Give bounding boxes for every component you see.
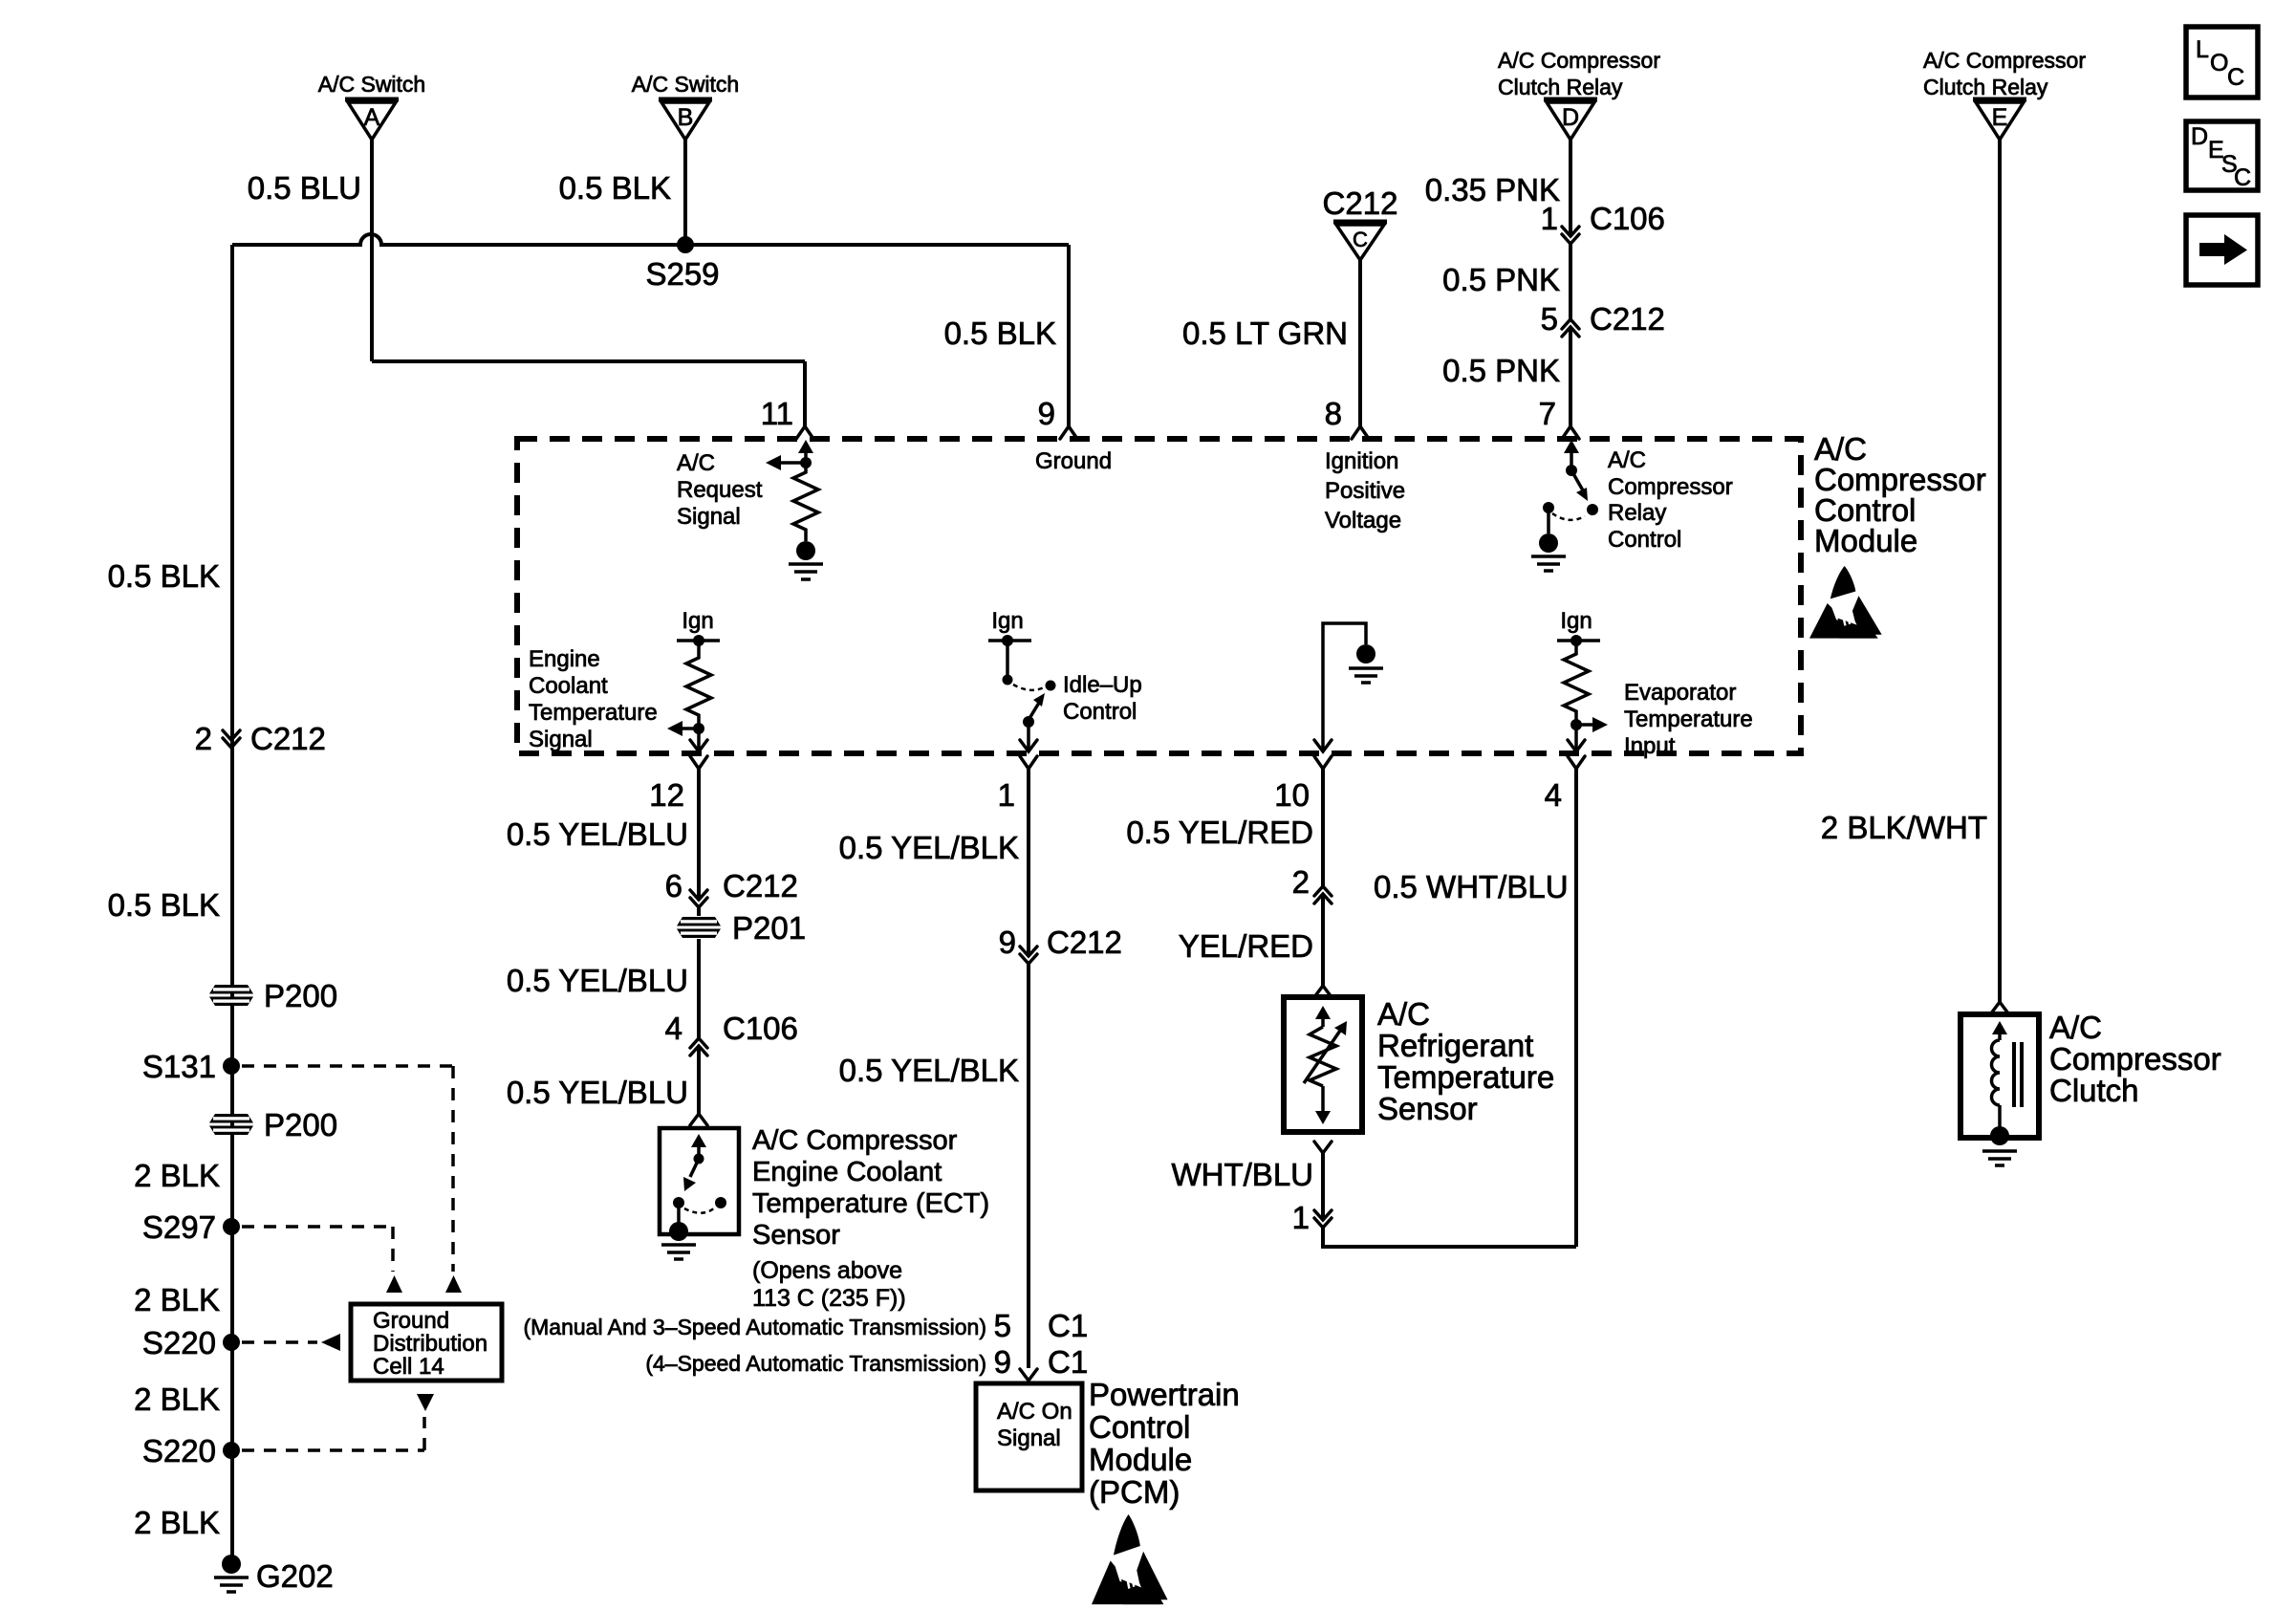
internal ground dot (pin 11) [796,541,815,560]
svg-text:C106: C106 [723,1011,798,1046]
right arrow (evaporator temp input) [1576,723,1594,727]
ground G202 symbol [214,1577,249,1592]
resistor [1564,641,1589,721]
second horizontal wire from switch A to pin 11 [372,359,805,363]
ESD sensitive symbol (module) [1809,566,1882,639]
svg-text:Temperature (ECT): Temperature (ECT) [752,1188,989,1219]
svg-text:C106: C106 [1590,201,1665,236]
thermistor arrow down [1321,1086,1325,1113]
svg-text:2 BLK/WHT: 2 BLK/WHT [1821,810,1987,845]
clutch connector chevron [1991,1002,2008,1013]
wire down to module pin 11 [803,361,807,426]
ECT stub to ground [677,1203,681,1224]
svg-text:1: 1 [1292,1200,1310,1235]
svg-text:Ign: Ign [1560,608,1592,634]
PCM connector chevron [1020,1369,1037,1381]
wire down to PCM (0.5 YEL/BLK) [1027,964,1030,1368]
thermistor zigzag [1310,1027,1336,1086]
wire with down arrowhead to pin 4 [1574,725,1578,751]
svg-text:A/C: A/C [1608,447,1646,473]
connector triangle D [1544,99,1597,140]
ECT ground symbol [661,1245,696,1259]
powertrain control module box [976,1383,1082,1490]
svg-text:Control: Control [1608,527,1681,553]
svg-text:Ign: Ign [991,608,1023,634]
stub to ground (pin 7 switch) [1547,508,1550,533]
wire with down arrowhead to pin 12 [697,729,701,751]
svg-text:A/C: A/C [2049,1010,2102,1045]
in-line connector 2 [1292,864,1332,903]
module name label [1814,431,1986,558]
wire (WHT/BLU) [1321,1153,1325,1220]
svg-text:Ground: Ground [1035,448,1112,474]
svg-text:Temperature: Temperature [529,700,658,726]
refrigerant sensor connector chevron [1314,986,1332,997]
ECT lower contact dot [673,1197,684,1208]
internal ground symbol (pin 7) [1531,556,1566,571]
svg-text:Module: Module [1814,523,1917,558]
wire with down arrowhead to pin 1 [1027,722,1030,751]
wire to clutch ground [1998,1105,2002,1128]
svg-text:10: 10 [1274,777,1310,813]
sensor bottom connector chevron [1314,1142,1332,1153]
A/C refrigerant temperature sensor box [1284,997,1362,1132]
stub down from Ign [1006,641,1009,675]
Ign T-bar [677,639,720,642]
splice node S131 [223,1057,240,1075]
LOC legend box [2186,27,2258,98]
connector triangle C [1333,222,1387,260]
svg-text:A/C: A/C [1377,996,1430,1032]
svg-text:12: 12 [649,777,684,813]
in-line connector 1 C106 [1541,201,1665,244]
switch arm with arrowhead [1029,703,1039,720]
thermistor diagonal arrow [1304,1031,1340,1083]
refrigerant sensor label [1377,996,1554,1126]
svg-text:Sensor: Sensor [1377,1091,1478,1126]
wire down to module pin 9 (0.5 BLK) [1067,245,1071,426]
svg-text:7: 7 [1539,396,1556,431]
svg-text:1: 1 [1541,201,1558,236]
svg-text:Relay: Relay [1608,500,1666,526]
svg-text:Control: Control [1063,699,1137,725]
clutch coil arrow up [1998,1033,2002,1040]
svg-text:9: 9 [1038,396,1055,431]
left arrow (A/C request signal) [779,461,806,465]
internal ground symbol (pin 11) [789,564,823,579]
clutch label [2049,1010,2221,1108]
svg-text:0.5 YEL/BLU: 0.5 YEL/BLU [507,816,688,852]
svg-text:Signal: Signal [529,727,593,752]
wire from triangle C to module pin 8 (0.5 LT GRN) [1358,260,1362,426]
right contact dot [1046,681,1056,691]
ESD sensitive symbol (PCM) [1092,1514,1168,1604]
svg-text:Input: Input [1624,733,1676,759]
svg-text:S259: S259 [645,256,719,292]
wire from A/C switch A down (0.5 BLU) [370,140,374,361]
svg-text:2 BLK: 2 BLK [134,1282,220,1317]
switch pivot dot [1566,465,1577,476]
wire (YEL/RED) [1321,894,1325,986]
svg-text:WHT/BLU: WHT/BLU [1172,1157,1314,1192]
internal ground symbol (pin 10) [1349,668,1383,683]
svg-text:Temperature: Temperature [1624,707,1753,732]
svg-text:Ground: Ground [373,1308,449,1334]
A/C Switch connector triangle B [659,99,712,140]
svg-text:2 BLK: 2 BLK [134,1382,220,1417]
DESC legend box [2186,121,2258,191]
svg-text:Coolant: Coolant [529,673,608,699]
svg-text:C212: C212 [1323,185,1398,221]
dashed reference wire from S131 [242,1066,453,1272]
internal ground dot (pin 10) [1356,644,1375,664]
wire segment [697,907,701,916]
svg-text:S297: S297 [142,1209,216,1245]
svg-text:Ignition: Ignition [1325,448,1398,474]
svg-text:Compressor: Compressor [1608,474,1733,500]
pin 12 connector chevron [690,756,707,769]
wire corner joining pin 4 wire [1323,1228,1576,1247]
svg-text:2 BLK: 2 BLK [134,1158,220,1193]
svg-text:Sensor: Sensor [752,1220,840,1251]
svg-text:P200: P200 [264,978,337,1013]
svg-text:0.5 BLK: 0.5 BLK [108,887,220,923]
svg-text:A/C Switch: A/C Switch [632,72,739,97]
svg-text:0.5 BLK: 0.5 BLK [108,558,220,594]
svg-text:Refrigerant: Refrigerant [1377,1028,1533,1063]
pin 7 connector chevron [1562,426,1579,439]
svg-text:S131: S131 [142,1049,216,1084]
in-line connector 9 C212 [999,925,1122,964]
arrowhead up (from S131) [445,1275,462,1293]
A/C compressor control module dashed outline [517,439,1801,753]
svg-text:0.5 WHT/BLU: 0.5 WHT/BLU [1374,869,1569,904]
svg-text:(Opens above: (Opens above [752,1257,902,1284]
svg-text:Clutch: Clutch [2049,1073,2139,1108]
svg-text:C: C [1353,228,1368,251]
svg-text:A/C Switch: A/C Switch [318,72,425,97]
Ign T-bar [988,639,1031,642]
in-line connector 1 [1292,1200,1332,1235]
wire from D down (0.35 PNK) [1569,140,1572,236]
svg-text:C212: C212 [1047,925,1122,960]
ECT sensor internal arrow up [697,1145,701,1157]
ECT switch pivot dot [694,1154,704,1164]
svg-text:0.5 YEL/RED: 0.5 YEL/RED [1126,815,1313,850]
internal ground dot (pin 7) [1539,533,1558,553]
svg-text:1: 1 [998,777,1015,813]
arrowhead up (from S297) [386,1275,402,1293]
pin 1 connector chevron [1020,756,1037,769]
svg-text:Positive: Positive [1325,478,1405,504]
PCM label [1089,1377,1240,1510]
svg-text:A/C Compressor: A/C Compressor [752,1125,958,1156]
svg-text:C212: C212 [1590,301,1665,337]
svg-text:G202: G202 [256,1558,334,1594]
svg-text:P200: P200 [264,1107,337,1142]
svg-text:Evaporator: Evaporator [1624,680,1736,706]
svg-text:P201: P201 [732,910,806,946]
resistor (pull-up at pin 11) [793,463,818,541]
ECT ground dot [669,1222,688,1241]
in-line connector 4 C106 [665,1011,798,1055]
svg-text:A/C On: A/C On [997,1399,1072,1425]
svg-text:(Manual And 3–Speed Automatic: (Manual And 3–Speed Automatic Transmissi… [523,1315,986,1339]
svg-text:O: O [2210,50,2228,76]
A/C compressor ECT sensor box [660,1128,739,1234]
clutch core bars [2014,1042,2022,1107]
svg-text:5: 5 [994,1308,1011,1343]
resistor [686,641,711,725]
wire from pin 12 (0.5 YEL/BLU) [697,769,701,900]
svg-text:0.5 PNK: 0.5 PNK [1442,262,1560,297]
svg-text:C1: C1 [1048,1308,1088,1343]
svg-text:0.5 BLK: 0.5 BLK [559,170,671,206]
svg-text:2: 2 [1292,864,1310,900]
thermistor arrow up [1321,1017,1325,1027]
svg-text:Request: Request [677,477,763,503]
svg-text:Ign: Ign [682,608,713,634]
ground distribution cell box [351,1304,502,1381]
svg-text:9: 9 [999,925,1016,960]
svg-text:Distribution: Distribution [373,1331,487,1357]
note (Manual And 3-Speed Automatic Transmission) pin 5 C1 [523,1308,1088,1343]
svg-text:D: D [2191,123,2208,150]
left contact dot [1543,502,1554,513]
svg-text:A/C Compressor: A/C Compressor [1498,48,1660,73]
pin 10 connector chevron [1314,756,1332,769]
wire from pin 1 (0.5 YEL/BLK) [1027,769,1030,956]
clutch ground symbol [1982,1151,2017,1165]
arrowhead left (from S220 upper) [321,1334,340,1351]
wire (0.5 YEL/BLU) [697,939,701,1038]
pin 11 connector chevron [796,426,813,439]
in-line connector 6 C212 [665,868,798,907]
svg-text:Clutch Relay: Clutch Relay [1498,75,1623,99]
svg-text:A: A [364,104,380,131]
A/C Switch connector triangle A [345,99,399,140]
wire from E down to A/C compressor clutch (2 BLK/WHT) [1998,140,2002,1002]
svg-text:2: 2 [195,721,212,756]
svg-text:0.5 YEL/BLK: 0.5 YEL/BLK [839,830,1019,865]
arrow legend box [2186,215,2258,285]
svg-text:8: 8 [1325,396,1342,431]
dashed reference wire from S220 lower [242,1417,424,1450]
pin 4 wire down (0.5 WHT/BLU) [1574,769,1578,1247]
svg-text:C212: C212 [250,721,326,756]
svg-text:A/C Compressor: A/C Compressor [1923,48,2086,73]
svg-text:Cell 14: Cell 14 [373,1354,444,1380]
pass-through grommet P200 (upper) [209,985,253,1006]
svg-text:C: C [2234,164,2251,191]
svg-text:0.5 LT GRN: 0.5 LT GRN [1182,315,1348,351]
svg-text:Compressor: Compressor [2049,1041,2221,1077]
svg-text:(4–Speed Automatic Transmissio: (4–Speed Automatic Transmission) [645,1351,986,1376]
dashed throw arc [1552,513,1585,520]
svg-text:C1: C1 [1048,1344,1088,1380]
svg-text:5: 5 [1541,301,1558,337]
svg-text:E: E [1992,104,2008,131]
down arrowhead at pin 10 [1321,740,1325,751]
svg-text:4: 4 [1545,777,1562,813]
clutch ground dot [1990,1126,2009,1145]
svg-text:B: B [678,104,694,131]
fixed contact dot [1587,504,1598,515]
wire up from pin 10 and over [1323,623,1366,740]
splice node S297 [223,1218,240,1235]
svg-text:C: C [2227,64,2244,91]
wire from pin 10 (0.5 YEL/RED) [1321,769,1325,886]
pivot dot [1023,716,1034,728]
pass-through grommet P201 [677,917,721,938]
pass-through grommet P200 (lower) [209,1114,253,1135]
clutch coil [1992,1040,2001,1105]
svg-text:11: 11 [761,396,793,431]
connector triangle E [1973,99,2026,140]
svg-text:9: 9 [994,1344,1011,1380]
svg-text:Clutch Relay: Clutch Relay [1923,75,2048,99]
pin 4 connector chevron [1568,756,1585,769]
junction dot [1570,719,1582,730]
svg-text:4: 4 [665,1011,682,1046]
in-line connector 2 C212 (left rail) [195,721,326,756]
svg-text:D: D [1562,104,1579,131]
wire from A/C switch B down (0.5 BLK) [683,140,687,245]
arrowhead down (to S220 lower) [417,1394,434,1411]
svg-text:C212: C212 [723,868,798,903]
svg-text:6: 6 [665,868,682,903]
svg-text:S220: S220 [142,1433,216,1469]
svg-text:A/C: A/C [677,450,715,476]
svg-text:0.5 YEL/BLU: 0.5 YEL/BLU [507,1075,688,1110]
splice node S220 (upper) [223,1334,240,1351]
pin 9 connector chevron [1060,426,1077,439]
svg-text:Temperature: Temperature [1377,1059,1554,1095]
ECT sensor connector chevron [690,1114,707,1125]
dashed reference wire from S220 upper [242,1340,317,1344]
ECT right contact dot [715,1197,726,1208]
svg-text:Engine Coolant: Engine Coolant [752,1157,942,1187]
svg-text:Engine: Engine [529,646,600,672]
svg-text:0.5 YEL/BLU: 0.5 YEL/BLU [507,963,688,998]
Ign T-bar [1557,639,1600,642]
splice node S220 (lower) [223,1442,240,1459]
left arrow (ECT signal) [681,727,699,730]
svg-text:Idle–Up: Idle–Up [1063,672,1142,698]
wire (0.5 YEL/BLU) [697,1046,701,1114]
svg-text:0.5 YEL/BLK: 0.5 YEL/BLK [839,1053,1019,1088]
svg-text:YEL/RED: YEL/RED [1179,928,1313,964]
wire between connectors (0.5 PNK) [1569,244,1572,319]
internal arrow up at pin 11 [804,451,808,463]
main horizontal wire with hop over switch-A wire [232,234,1069,245]
splice node S259 [677,236,694,253]
svg-text:Control: Control [1089,1409,1190,1445]
svg-text:0.5 BLK: 0.5 BLK [944,315,1056,351]
dashed throw arc [1013,685,1044,690]
svg-text:S220: S220 [142,1325,216,1360]
left rail wire (0.5 BLK / 2 BLK to G202) [230,245,234,1564]
svg-text:Powertrain: Powertrain [1089,1377,1240,1412]
switch arm with arrowhead [1571,470,1583,490]
svg-text:Module: Module [1089,1442,1192,1477]
pin 8 connector chevron [1352,426,1369,439]
dashed reference wire from S297 [242,1227,393,1272]
svg-text:(PCM): (PCM) [1089,1474,1180,1510]
junction dot [693,723,704,734]
svg-text:Voltage: Voltage [1325,508,1401,533]
svg-text:0.5 BLU: 0.5 BLU [248,170,361,206]
svg-text:2 BLK: 2 BLK [134,1505,220,1540]
wire down to module pin 7 (0.5 PNK) [1569,327,1572,426]
ECT dashed throw arc [684,1207,715,1213]
internal arrow up at pin 7 [1570,451,1573,468]
A/C compressor clutch box [1960,1014,2039,1138]
in-line connector 5 C212 [1541,301,1665,337]
junction dot pin 11 branch [800,457,812,468]
svg-text:Signal: Signal [677,504,741,530]
ECT switch arm with arrowhead [690,1159,699,1177]
svg-text:L: L [2196,36,2209,63]
svg-text:Signal: Signal [997,1425,1061,1451]
svg-text:0.5 PNK: 0.5 PNK [1442,353,1560,388]
note (4-Speed Automatic Transmission) pin 9 C1 [645,1344,1088,1380]
svg-text:113 C (235 F)): 113 C (235 F)) [752,1285,906,1312]
ground G202 dot [222,1555,241,1574]
